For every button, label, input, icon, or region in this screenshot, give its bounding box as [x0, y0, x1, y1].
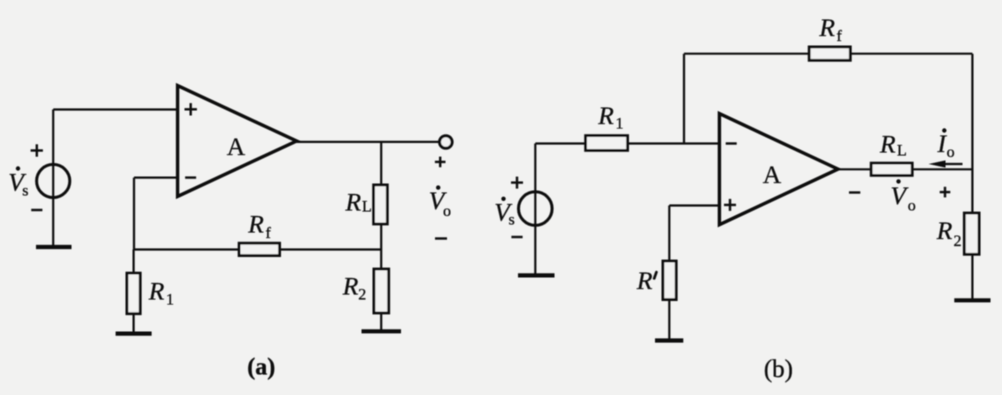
plus sign near R2 (b): [940, 187, 951, 198]
source Vs (a): [37, 164, 70, 197]
svg-text:R: R: [818, 13, 835, 42]
resistor R1 (a) leads: [133, 250, 135, 274]
wire R' to ground (b): [668, 300, 670, 341]
svg-text:o: o: [443, 203, 451, 220]
svg-text:(b): (b): [764, 356, 793, 383]
wire feedback top (b): [684, 53, 972, 55]
svg-text:R: R: [345, 187, 362, 216]
svg-text:R: R: [342, 271, 359, 300]
arrowhead of Io (b): [929, 160, 946, 167]
wire output branch down (a): [380, 142, 382, 185]
svg-text:A: A: [763, 160, 782, 189]
svg-text:1: 1: [616, 115, 624, 132]
wire R2 to ground (a): [380, 313, 382, 332]
svg-text:2: 2: [954, 233, 962, 250]
resistor Rf (b): [809, 47, 850, 60]
ground under Vs (b): [518, 273, 555, 277]
resistor RL (b): [871, 163, 912, 175]
svg-text:R: R: [879, 130, 896, 159]
label Io (b): [937, 128, 955, 161]
svg-text:1: 1: [166, 292, 174, 309]
resistor RL (a): [374, 185, 388, 224]
wire RL to R2 (a): [380, 224, 382, 269]
source Vs (b): [519, 192, 553, 226]
wire vertical to feedback node (a): [133, 178, 135, 250]
current arrow Io (b): [943, 163, 963, 165]
svg-text:L: L: [362, 198, 372, 215]
plus sign of Vs (b): [511, 177, 523, 189]
wire vertical to R' (b): [668, 206, 670, 262]
minus sign at output (a): [435, 237, 447, 239]
minus sign at op-amp (a) inverting input: [185, 176, 196, 178]
svg-text:R: R: [247, 209, 264, 238]
wire op-amp inverting input (a): [134, 177, 178, 179]
wire R2 to ground (b): [971, 254, 973, 300]
minus sign at op-amp output (b): [849, 191, 860, 193]
output terminal (a): [440, 136, 453, 149]
label Vs (a): [8, 166, 28, 199]
svg-text:f: f: [837, 28, 843, 45]
plus sign of Vs (a): [31, 144, 43, 156]
svg-text:f: f: [266, 225, 272, 242]
wire op-amp output (b): [838, 168, 972, 170]
svg-text:s: s: [22, 182, 28, 199]
svg-text:(a): (a): [247, 355, 275, 381]
minus sign at op-amp (b) inverting input: [726, 142, 737, 144]
ground under R' (b): [655, 338, 683, 342]
op-amp U (b): [719, 114, 838, 225]
svg-text:L: L: [897, 143, 907, 160]
resistor R1 (b): [586, 136, 628, 151]
minus sign of Vs (a): [31, 209, 42, 211]
plus sign at op-amp (a) noninverting input: [185, 103, 197, 115]
plus sign at output terminal (a): [435, 157, 446, 168]
wire vertical through source Vs (b): [534, 144, 536, 275]
wire vertical through source Vs: [52, 110, 54, 247]
resistor R2 (b): [964, 213, 979, 254]
wire feedback horizontal (a): [134, 248, 381, 250]
wire noninverting input to R' (b): [669, 204, 719, 206]
svg-text:R: R: [936, 216, 953, 245]
svg-text:A: A: [227, 132, 246, 161]
minus sign of Vs (b): [511, 236, 522, 238]
resistor R2 (a): [374, 269, 389, 313]
label Vo (b): [891, 179, 916, 214]
plus sign at op-amp (b) noninverting input: [724, 199, 736, 211]
resistor Rf (a): [239, 243, 280, 255]
label Vs (b): [494, 197, 514, 229]
svg-text:o: o: [908, 197, 916, 214]
label Vo (a): [429, 185, 451, 219]
ground under Vs (a): [36, 245, 72, 249]
wire op-amp output (a): [297, 141, 440, 143]
ground under R2 (b): [954, 298, 990, 302]
ground under R2 (a): [362, 329, 402, 333]
svg-text:2: 2: [358, 286, 366, 303]
wire Vs to op-amp inverting input (b): [535, 142, 719, 144]
svg-text:R: R: [148, 277, 165, 306]
svg-text:s: s: [509, 212, 515, 229]
ground under R1 (a): [116, 332, 152, 336]
wire Vs to op-amp + input: [53, 108, 177, 110]
svg-text:R: R: [597, 101, 614, 130]
svg-text:R: R: [636, 266, 653, 295]
op-amp U (a): [178, 86, 297, 197]
svg-text:o: o: [947, 144, 955, 161]
resistor R1 (a): [127, 273, 140, 314]
resistor R' (b): [663, 261, 676, 300]
wire feedback vertical left (b): [683, 54, 685, 144]
wire right vertical (b): [971, 54, 973, 213]
